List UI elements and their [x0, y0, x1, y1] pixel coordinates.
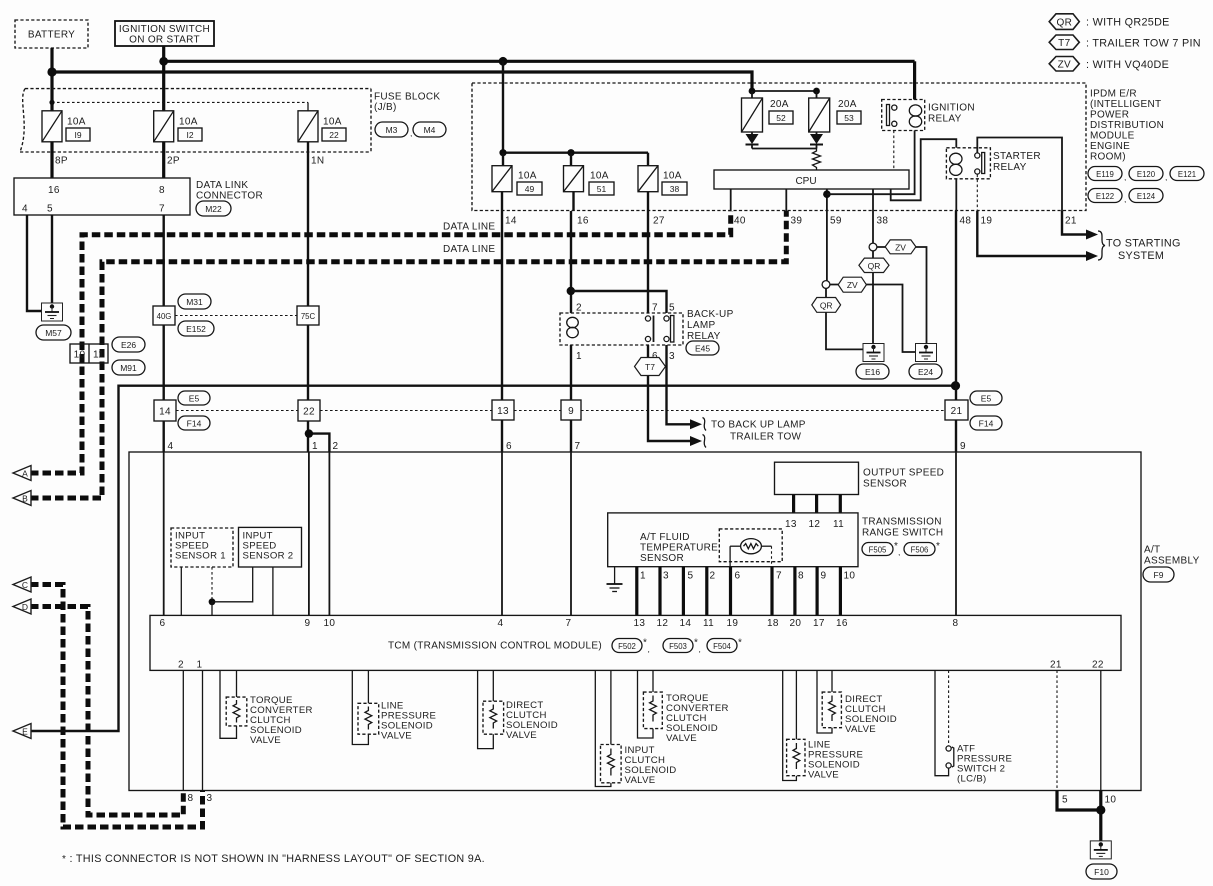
- svg-text:,: ,: [410, 128, 412, 138]
- wire battery main horizontal: [52, 72, 752, 92]
- svg-text:M57: M57: [45, 328, 62, 338]
- wire output sensor pin12: [815, 495, 818, 513]
- line pressure solenoid valve 2: [783, 670, 805, 780]
- svg-text:12: 12: [657, 618, 669, 629]
- label direct clutch solenoid valve 1: [506, 700, 558, 741]
- svg-text:VALVE: VALVE: [506, 730, 537, 741]
- node option circle 2: [822, 281, 830, 289]
- wire through ZV2 to E24 left: [830, 285, 916, 353]
- svg-text:ZV: ZV: [847, 280, 858, 290]
- wire ignition vertical: [162, 46, 165, 112]
- svg-text:14: 14: [505, 216, 517, 227]
- svg-text:VALVE: VALVE: [250, 735, 281, 746]
- svg-text:F9: F9: [1154, 570, 1164, 580]
- svg-text:TO BACK UP LAMP: TO BACK UP LAMP: [711, 420, 806, 431]
- connector F14 right: [970, 416, 1002, 430]
- fuse 10A I2: [154, 111, 202, 142]
- svg-text:,: ,: [1124, 172, 1126, 182]
- svg-text:: WITH QR25DE: : WITH QR25DE: [1086, 17, 1170, 29]
- connector box 22: [298, 400, 320, 421]
- svg-text:ON OR START: ON OR START: [129, 35, 200, 46]
- brace backup: [703, 418, 707, 448]
- label ignition relay: [928, 103, 975, 125]
- svg-text:11: 11: [93, 350, 104, 361]
- wire A/T pin7 to TCM pin7: [570, 452, 572, 615]
- wire battery vertical: [50, 48, 53, 112]
- svg-text:9: 9: [305, 618, 311, 629]
- svg-text:F10: F10: [1094, 867, 1109, 877]
- svg-text:75C: 75C: [301, 312, 316, 321]
- wire DLC pin7 down to A/T pin4: [162, 215, 164, 452]
- wire through QR to E16: [872, 251, 874, 344]
- label line pressure solenoid valve 2: [808, 740, 863, 781]
- node arrow E: [13, 724, 31, 739]
- wire thermistor left to pin6: [729, 546, 731, 567]
- svg-text:M22: M22: [205, 204, 222, 214]
- svg-text:(INTELLIGENT: (INTELLIGENT: [1090, 99, 1161, 110]
- wire range pin10 to TCM16: [839, 567, 842, 616]
- connector box 40G: [153, 306, 175, 325]
- svg-text:*: *: [738, 638, 742, 649]
- connector M4: [413, 122, 446, 137]
- wire junction through connector21 to A/T pin9: [955, 420, 957, 452]
- svg-text:FUSE BLOCK: FUSE BLOCK: [374, 92, 440, 103]
- svg-text:2P: 2P: [167, 156, 180, 167]
- wire branch to relay pin5: [571, 291, 667, 313]
- wire sensor1 left pin to TCM: [180, 567, 182, 615]
- svg-text:TO STARTING: TO STARTING: [1106, 238, 1181, 250]
- wire CPU pin 59: [823, 189, 831, 211]
- svg-text:SENSOR: SENSOR: [863, 479, 907, 490]
- line pressure solenoid valve 1: [352, 670, 378, 744]
- label IPDM E/R: [1090, 89, 1164, 163]
- wire through QR2 to E16 left: [826, 288, 863, 349]
- svg-text:2: 2: [333, 441, 339, 452]
- IPDM E/R box: [472, 83, 1086, 211]
- svg-text:1: 1: [197, 660, 203, 671]
- svg-text:F506: F506: [911, 546, 929, 555]
- wire ignition relay feed: [913, 61, 916, 99]
- svg-text:IPDM E/R: IPDM E/R: [1090, 89, 1137, 100]
- svg-text:: TRAILER TOW 7 PIN: : TRAILER TOW 7 PIN: [1086, 37, 1201, 49]
- svg-text:A: A: [22, 469, 28, 479]
- svg-text:E120: E120: [1137, 170, 1156, 179]
- svg-text:F502: F502: [618, 642, 636, 651]
- connector F503: [663, 638, 701, 655]
- connector M91: [112, 360, 145, 375]
- svg-text:59: 59: [830, 216, 842, 227]
- node arrow D: [13, 599, 31, 614]
- svg-text:10: 10: [74, 350, 86, 361]
- svg-text:2: 2: [178, 660, 184, 671]
- svg-text:(J/B): (J/B): [374, 102, 397, 113]
- wire ignition relay coil to pin59: [827, 131, 915, 195]
- fuse block box: [20, 89, 371, 152]
- svg-text:DATA LINK: DATA LINK: [196, 180, 248, 191]
- fuse 10A 49: [492, 166, 542, 195]
- svg-text:,: ,: [1124, 194, 1126, 204]
- svg-text:10A: 10A: [323, 117, 342, 128]
- svg-text:7: 7: [776, 571, 782, 582]
- wire data line 1 (arrow A to IPDM pin 40): [30, 211, 731, 473]
- node ipdm ignition feed junction: [499, 57, 508, 66]
- wire pin14 down to A/T pin6: [501, 211, 503, 452]
- svg-text:16: 16: [577, 216, 589, 227]
- svg-text:M4: M4: [424, 125, 436, 135]
- svg-text:IGNITION SWITCH: IGNITION SWITCH: [119, 24, 210, 35]
- label to starting system: [1106, 238, 1181, 263]
- fuse 20A 52: [742, 98, 794, 132]
- wire pin16 down to backup relay coil: [567, 211, 575, 313]
- wire sensor1 right pin (dashed): [211, 567, 213, 602]
- svg-text:53: 53: [844, 113, 854, 123]
- svg-text:E45: E45: [695, 344, 710, 354]
- svg-text:* : THIS CONNECTOR IS NOT SHOW: * : THIS CONNECTOR IS NOT SHOWN IN "HARN…: [62, 853, 485, 865]
- svg-text:RELAY: RELAY: [928, 114, 962, 125]
- connector F14 left: [178, 416, 210, 430]
- svg-text:*: *: [936, 541, 940, 552]
- svg-text:,: ,: [898, 547, 900, 557]
- svg-text:C: C: [22, 580, 28, 590]
- wire E (arrow E up to junction line): [30, 386, 956, 731]
- svg-text:E: E: [22, 727, 28, 737]
- wire range pin9 to TCM17: [815, 567, 818, 616]
- svg-text:F14: F14: [979, 419, 994, 429]
- svg-text:F503: F503: [669, 642, 687, 651]
- svg-text:TCM (TRANSMISSION CONTROL MODU: TCM (TRANSMISSION CONTROL MODULE): [388, 641, 602, 652]
- svg-text:SENSOR 1: SENSOR 1: [175, 551, 226, 562]
- svg-text:: WITH VQ40DE: : WITH VQ40DE: [1086, 59, 1169, 71]
- svg-text:1: 1: [576, 351, 582, 362]
- wire IPDM fuse bus: [499, 149, 648, 166]
- ignition relay: [882, 100, 925, 131]
- svg-text:20A: 20A: [838, 99, 857, 110]
- label line pressure solenoid valve 1: [381, 701, 436, 742]
- label A/T assembly: [1144, 545, 1200, 567]
- svg-text:E16: E16: [865, 367, 880, 377]
- wire range pin5 to TCM14: [682, 567, 685, 616]
- connector F504: [707, 638, 742, 653]
- svg-text:10A: 10A: [518, 171, 537, 182]
- CPU box: [714, 170, 909, 189]
- label A/T fluid temperature sensor: [640, 532, 718, 564]
- wire fuse 22 down (1N): [307, 142, 309, 401]
- connector M22: [196, 201, 231, 216]
- svg-text:39: 39: [791, 216, 803, 227]
- svg-text:F504: F504: [713, 642, 731, 651]
- svg-text:11: 11: [703, 618, 714, 629]
- svg-text:21: 21: [951, 406, 963, 417]
- svg-text:E121: E121: [1178, 170, 1196, 179]
- wire TCM pin22 to A/T pin10: [1100, 670, 1102, 790]
- wire CPU to starter relay coil: [891, 139, 957, 200]
- svg-text:QR: QR: [820, 300, 833, 310]
- svg-text:CPU: CPU: [795, 176, 816, 187]
- diode D53: [810, 132, 823, 149]
- svg-text:TRAILER TOW: TRAILER TOW: [730, 432, 802, 443]
- wire A/T pin5 to ground junction: [1057, 791, 1101, 811]
- svg-text:TRANSMISSION: TRANSMISSION: [862, 517, 942, 528]
- wire TCM pin21 (dashed) to A/T pin5: [1056, 670, 1058, 790]
- resistor to CPU: [813, 149, 821, 171]
- svg-text:CONNECTOR: CONNECTOR: [196, 191, 263, 202]
- data link connector box: [14, 178, 190, 215]
- wire output sensor pin13: [792, 495, 795, 513]
- arrow to starting system 2: [1086, 251, 1098, 261]
- svg-text:ROOM): ROOM): [1090, 152, 1126, 163]
- wire A/T pin2 to TCM pin10: [328, 452, 330, 615]
- svg-text:E124: E124: [1137, 192, 1156, 201]
- wire pin19 to starting system: [977, 211, 1089, 256]
- connector M3: [375, 122, 412, 138]
- label direct clutch solenoid valve 2: [845, 694, 897, 735]
- legend ZV: [1049, 57, 1169, 72]
- svg-text:8: 8: [953, 618, 959, 629]
- svg-text:40G: 40G: [157, 312, 172, 321]
- label input clutch solenoid valve: [625, 745, 677, 786]
- input speed sensor 1: [171, 528, 233, 567]
- data link connector label: [196, 180, 263, 202]
- svg-text:E5: E5: [189, 394, 200, 404]
- svg-text:5: 5: [1062, 795, 1068, 806]
- wire fuse 38 to pin 27: [647, 192, 649, 211]
- svg-text:10A: 10A: [590, 171, 609, 182]
- wire fuse-block internal battery bus (dashed): [49, 100, 308, 112]
- wire sensor2 left pin to junction: [212, 567, 253, 602]
- hexagon QR 2: [812, 298, 841, 313]
- svg-text:51: 51: [597, 184, 607, 194]
- svg-text:SENSOR 2: SENSOR 2: [243, 551, 294, 562]
- relay pin labels: [576, 303, 675, 363]
- wire DLC pin5 to ground: [51, 215, 53, 303]
- wire relay pin1 down through connector 9 to A/T pin7: [570, 345, 572, 452]
- A/T assembly box: [129, 452, 1141, 791]
- node arrow A: [13, 466, 31, 481]
- svg-text:F14: F14: [187, 419, 202, 429]
- svg-text:POWER: POWER: [1090, 110, 1129, 121]
- svg-text:19: 19: [981, 216, 993, 227]
- wire range pin3 to TCM12: [658, 567, 661, 616]
- svg-text:2: 2: [710, 571, 716, 582]
- svg-text:10: 10: [324, 618, 336, 629]
- diode D52: [746, 132, 759, 149]
- svg-text:8P: 8P: [55, 156, 68, 167]
- svg-text:,: ,: [699, 644, 701, 654]
- connector E45: [686, 341, 719, 355]
- connector row M31/E152 dashed link: [175, 315, 297, 317]
- svg-text:ZV: ZV: [895, 242, 906, 252]
- svg-text:,: ,: [1165, 172, 1167, 182]
- direct clutch solenoid valve 1: [478, 670, 504, 748]
- svg-text:22: 22: [329, 130, 339, 140]
- svg-text:7: 7: [575, 441, 581, 452]
- wire TCM pin1 to A/T pin3: [202, 670, 204, 790]
- svg-text:D: D: [22, 602, 28, 612]
- connector E5 left: [178, 391, 210, 405]
- node option circle 1: [869, 243, 877, 251]
- svg-text:1N: 1N: [311, 156, 324, 167]
- svg-text:10: 10: [1105, 795, 1117, 806]
- svg-text:QR: QR: [1056, 17, 1072, 28]
- svg-text:14: 14: [159, 407, 171, 418]
- svg-text:1: 1: [312, 441, 318, 452]
- svg-text:1: 1: [640, 571, 646, 582]
- svg-text:21: 21: [1050, 660, 1062, 671]
- svg-text:5: 5: [47, 204, 53, 215]
- ground E16: [856, 344, 889, 380]
- wire pin59 down to option circle 2: [826, 211, 828, 281]
- fuse 10A 38: [638, 166, 687, 195]
- svg-text:40: 40: [734, 216, 746, 227]
- connector E152: [178, 321, 214, 336]
- fuse 20A 53: [809, 98, 861, 132]
- wire ignition main horizontal: [164, 60, 915, 63]
- wire junction to TCM: [211, 602, 213, 616]
- svg-text:22: 22: [1092, 660, 1104, 671]
- wire DLC pin4 to ground: [27, 215, 42, 311]
- svg-text:4: 4: [168, 441, 174, 452]
- svg-text:38: 38: [877, 216, 889, 227]
- label starter relay: [993, 151, 1041, 173]
- connector box 21: [945, 400, 968, 420]
- svg-text:*: *: [643, 638, 647, 649]
- wire fuse 49 to pin 14: [501, 192, 503, 211]
- svg-text:T7: T7: [645, 362, 655, 372]
- svg-text:9: 9: [821, 571, 827, 582]
- svg-text:I9: I9: [74, 130, 81, 140]
- wire pin27 down to relay pin7: [647, 211, 649, 313]
- svg-text:E119: E119: [1096, 170, 1114, 179]
- wire fuse I9 to DLC pin16: [50, 142, 53, 178]
- TCM top pin labels: [160, 618, 959, 629]
- torque converter clutch solenoid valve 2: [638, 670, 663, 738]
- svg-text:VALVE: VALVE: [381, 731, 412, 742]
- wire diode join: [752, 148, 817, 150]
- svg-text:ASSEMBLY: ASSEMBLY: [1144, 556, 1200, 567]
- svg-text:E24: E24: [918, 367, 933, 377]
- connector E121: [1170, 167, 1204, 181]
- label TCC solenoid valve 1: [250, 695, 313, 746]
- wire A/T pin1 to TCM pin9: [308, 452, 310, 615]
- ground M57: [36, 303, 71, 340]
- svg-text:11: 11: [833, 519, 844, 530]
- starter relay: [946, 148, 990, 179]
- svg-text:M31: M31: [186, 297, 203, 307]
- svg-text:21: 21: [1065, 216, 1077, 227]
- svg-text:BACK-UP: BACK-UP: [687, 309, 734, 320]
- wire battery bus to 20A fuses: [749, 88, 820, 98]
- svg-text:3: 3: [207, 793, 213, 804]
- output speed sensor: [775, 462, 945, 494]
- svg-text:16: 16: [48, 185, 60, 196]
- svg-text:TEMPERATURE: TEMPERATURE: [640, 543, 718, 554]
- svg-text:10A: 10A: [67, 117, 86, 128]
- svg-text:52: 52: [776, 113, 786, 123]
- ground F10: [1086, 841, 1117, 879]
- svg-text:14: 14: [680, 618, 692, 629]
- hexagon ZV 1: [885, 240, 916, 254]
- svg-text:5: 5: [669, 303, 675, 314]
- A/T bottom pin labels 5,10: [1062, 795, 1116, 806]
- svg-text:13: 13: [785, 519, 797, 530]
- connector box 13: [492, 400, 514, 420]
- connector E120: [1129, 167, 1167, 183]
- ignition switch box: [115, 21, 214, 46]
- label to back up lamp trailer tow: [711, 420, 806, 443]
- svg-text:M91: M91: [120, 363, 137, 373]
- TCM box: [150, 615, 1121, 670]
- node ground junction: [1096, 805, 1105, 814]
- svg-text:F505: F505: [869, 546, 887, 555]
- svg-text:3: 3: [669, 351, 675, 362]
- svg-text:RELAY: RELAY: [993, 162, 1027, 173]
- connector E124: [1129, 189, 1163, 203]
- svg-text:E152: E152: [186, 324, 206, 334]
- svg-text:48: 48: [960, 216, 972, 227]
- svg-text:DATA LINE: DATA LINE: [443, 244, 495, 255]
- range switch pin labels: [640, 571, 855, 582]
- arrow to starting system 1: [1086, 230, 1098, 240]
- svg-text:17: 17: [813, 618, 825, 629]
- connector box 14: [154, 400, 176, 421]
- label back-up lamp relay: [687, 309, 734, 342]
- connector F502: [612, 638, 650, 655]
- wire range pin6 to TCM19: [729, 567, 732, 616]
- svg-text:E122: E122: [1096, 192, 1114, 201]
- svg-text:8: 8: [159, 185, 165, 196]
- svg-text:12: 12: [809, 519, 821, 530]
- svg-text:6: 6: [506, 441, 512, 452]
- svg-text:VALVE: VALVE: [625, 775, 656, 786]
- svg-text:M3: M3: [386, 125, 398, 135]
- node battery junction: [47, 67, 56, 76]
- wire CPU pin 39: [785, 189, 787, 211]
- wire CPU pin 40: [730, 189, 732, 211]
- svg-text:E26: E26: [121, 340, 136, 350]
- svg-text:16: 16: [836, 618, 848, 629]
- connector E119: [1088, 167, 1126, 183]
- input speed sensor 2: [239, 527, 302, 567]
- svg-text:10: 10: [844, 571, 856, 582]
- svg-text:10A: 10A: [179, 117, 198, 128]
- svg-text:IGNITION: IGNITION: [928, 103, 975, 114]
- svg-text:18: 18: [767, 618, 779, 629]
- hexagon QR 1: [859, 258, 889, 272]
- svg-text:8: 8: [188, 793, 194, 804]
- connector box 75C: [297, 306, 319, 325]
- svg-text:STARTER: STARTER: [993, 151, 1041, 162]
- connector E5 right: [970, 391, 1002, 405]
- wire starter relay contact to pin 21: [977, 138, 1062, 212]
- wire TCM pin2 to A/T pin8: [182, 670, 184, 790]
- wire ignition feed into IPDM: [502, 61, 504, 152]
- label transmission range switch: [862, 517, 943, 539]
- wire range pin1 to TCM13: [635, 567, 638, 616]
- wire fuse 51 to pin 16: [572, 192, 574, 211]
- svg-text:20: 20: [790, 618, 802, 629]
- fuse 10A I9: [42, 111, 90, 142]
- node junction at pin48 wire: [951, 381, 960, 390]
- svg-text:38: 38: [670, 184, 680, 194]
- svg-text:ZV: ZV: [1058, 60, 1071, 71]
- hexagon ZV 2: [838, 277, 866, 292]
- svg-text:QR: QR: [868, 261, 881, 271]
- wire output sensor pin11: [839, 495, 842, 513]
- wire range pin2 to TCM11: [705, 567, 708, 616]
- wire relay pin3 to backup lamp arrow: [667, 345, 693, 424]
- svg-text:7: 7: [159, 204, 165, 215]
- A/T fluid temp sensor inner box: [719, 529, 782, 562]
